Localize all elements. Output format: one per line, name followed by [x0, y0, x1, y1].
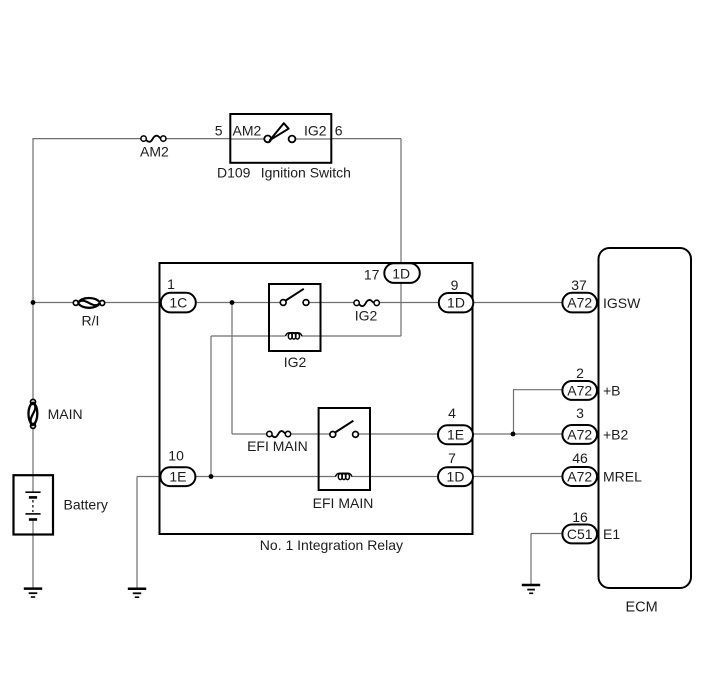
connector 1D pin 9: [439, 277, 474, 312]
fuse EFI MAIN: [267, 431, 291, 437]
node junction C: [209, 474, 214, 479]
relay EFI MAIN coil: [335, 473, 352, 479]
connector C51 pin 16 E1: [562, 509, 620, 543]
svg-text:1E: 1E: [447, 427, 464, 443]
wire: [473, 476, 562, 478]
fuse AM2: [141, 136, 166, 142]
svg-text:10: 10: [168, 448, 184, 464]
svg-text:5: 5: [215, 123, 223, 139]
connector A72 pin 37 IGSW: [562, 277, 641, 312]
svg-text:AM2: AM2: [233, 123, 262, 139]
svg-text:+B2: +B2: [603, 426, 629, 442]
svg-text:Battery: Battery: [64, 497, 108, 513]
connector 1D pin 17: [364, 263, 420, 283]
wire: [295, 138, 331, 140]
battery: [14, 475, 54, 534]
svg-text:A72: A72: [567, 382, 592, 398]
relay EFI MAIN box: [319, 408, 370, 490]
svg-text:1E: 1E: [169, 469, 186, 485]
svg-text:A72: A72: [567, 295, 592, 311]
svg-text:7: 7: [448, 450, 456, 466]
svg-text:A72: A72: [567, 469, 592, 485]
svg-text:ECM: ECM: [626, 600, 658, 616]
wire: [513, 390, 515, 434]
wire: [166, 138, 230, 140]
wire: [195, 476, 335, 478]
wire: [136, 477, 138, 588]
wire: [137, 476, 160, 478]
wire: [331, 138, 401, 140]
svg-text:1D: 1D: [392, 266, 410, 282]
wire: [211, 335, 285, 337]
svg-text:A72: A72: [567, 426, 592, 442]
wire: [196, 302, 281, 304]
wire: [400, 139, 402, 265]
svg-text:46: 46: [572, 450, 588, 466]
wire: [210, 336, 212, 477]
svg-text:MREL: MREL: [603, 469, 642, 485]
wire: [32, 138, 34, 400]
connector A72 pin 3 +B2: [562, 405, 628, 444]
wire: [473, 302, 562, 304]
wire: [231, 303, 233, 435]
connector A72 pin 46 MREL: [562, 450, 642, 486]
wire: [230, 138, 264, 140]
ignition switch contacts: [264, 123, 295, 142]
wire: [379, 302, 438, 304]
fusible link MAIN: [28, 399, 37, 428]
svg-text:17: 17: [364, 267, 380, 283]
svg-text:Ignition Switch: Ignition Switch: [261, 165, 351, 181]
wire: [358, 433, 438, 435]
node junction A: [31, 300, 36, 305]
wire: [33, 302, 74, 304]
wire: [302, 335, 401, 337]
wire: [400, 282, 402, 336]
ground (ECM E1): [522, 585, 540, 593]
svg-text:EFI MAIN: EFI MAIN: [313, 495, 374, 511]
relay IG2 box: [269, 284, 321, 351]
svg-text:C51: C51: [567, 526, 593, 542]
svg-text:37: 37: [571, 277, 587, 293]
svg-text:IGSW: IGSW: [603, 295, 641, 311]
svg-text:R/I: R/I: [82, 313, 100, 329]
svg-text:6: 6: [335, 123, 343, 139]
fusible link R/I: [73, 298, 104, 308]
svg-text:2: 2: [576, 365, 584, 381]
ground (integration relay): [128, 589, 146, 597]
connector 1E pin 10: [160, 448, 195, 487]
ECM box: [599, 248, 692, 588]
wire: [530, 534, 532, 585]
connector 1E pin 4: [438, 405, 473, 444]
svg-text:E1: E1: [603, 526, 620, 542]
svg-text:9: 9: [451, 277, 459, 293]
wire: [232, 433, 267, 435]
svg-text:IG2: IG2: [355, 308, 378, 324]
connector 1D pin 7: [438, 450, 473, 486]
svg-text:No. 1 Integration Relay: No. 1 Integration Relay: [260, 537, 403, 553]
wire: [513, 389, 562, 391]
wire: [105, 302, 161, 304]
svg-text:IG2: IG2: [284, 354, 307, 370]
wire: [531, 533, 562, 535]
svg-text:1: 1: [167, 276, 175, 292]
svg-text:4: 4: [448, 405, 456, 421]
relay IG2 contacts: [280, 289, 309, 306]
svg-text:+B: +B: [603, 383, 621, 399]
wire: [473, 433, 562, 435]
svg-text:EFI MAIN: EFI MAIN: [247, 438, 308, 454]
svg-text:IG2: IG2: [304, 123, 327, 139]
wire: [32, 428, 34, 492]
svg-text:MAIN: MAIN: [48, 406, 83, 422]
svg-text:16: 16: [572, 509, 588, 525]
node junction D: [511, 432, 516, 437]
connector 1C pin 1: [161, 276, 196, 312]
node junction B: [230, 300, 235, 305]
fuse IG2: [354, 300, 380, 306]
svg-text:1D: 1D: [447, 295, 465, 311]
svg-text:AM2: AM2: [140, 144, 169, 160]
wire: [352, 476, 438, 478]
wire: [32, 520, 34, 588]
svg-text:D109: D109: [217, 165, 251, 181]
connector A72 pin 2 +B: [562, 365, 620, 400]
svg-text:3: 3: [576, 405, 584, 421]
wire: [309, 302, 354, 304]
relay EFI MAIN contacts: [330, 421, 359, 438]
wire: [291, 433, 330, 435]
svg-text:1C: 1C: [169, 295, 187, 311]
wire: [33, 138, 141, 140]
ground (battery): [24, 589, 42, 597]
relay IG2 coil: [285, 333, 302, 339]
ignition switch box D109: [230, 114, 331, 163]
svg-text:1D: 1D: [447, 469, 465, 485]
No.1 Integration Relay box: [160, 263, 473, 534]
